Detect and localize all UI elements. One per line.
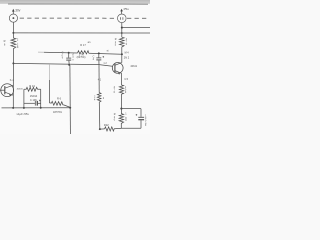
wire down — [98, 103, 101, 129]
transistor Q4 — [0, 84, 14, 97]
svg-text:40341: 40341 — [130, 65, 137, 68]
svg-text:R 6: R 6 — [57, 96, 62, 100]
node — [69, 107, 71, 109]
svg-text:18H 5%: 18H 5% — [53, 111, 63, 114]
wire right — [100, 128, 105, 130]
right column: wire T2 to rail E — [121, 23, 123, 38]
svg-text:b 4: b 4 — [10, 78, 15, 82]
node — [99, 128, 101, 130]
svg-text:2N 2: 2N 2 — [124, 55, 130, 59]
transistor Q5 — [112, 63, 123, 75]
R13 left leg — [23, 89, 25, 108]
node rail F — [120, 108, 122, 110]
vertical x=99 rail B to R19 — [98, 66, 100, 93]
label + right — [102, 56, 104, 58]
terminal T2 circle — [118, 14, 127, 23]
rail G — [121, 127, 141, 129]
wire emitter down — [121, 73, 123, 85]
terminal T1 +30V arrow — [12, 9, 15, 14]
long vertical from rail B down (x=70) — [69, 65, 71, 108]
capacitor C106 branch — [24, 100, 41, 106]
terminal T2 +9V arrow — [120, 9, 123, 14]
node cap A top — [68, 52, 70, 54]
resistor R20 — [119, 109, 123, 129]
node rail A cross — [121, 32, 123, 34]
svg-text:x1µF /65v: x1µF /65v — [17, 112, 30, 116]
node — [40, 107, 42, 109]
wire down to Q4 — [12, 63, 14, 108]
mid rail D left segment — [38, 51, 44, 53]
terminal T1 circle — [9, 14, 17, 22]
capacitor C4 — [96, 53, 101, 66]
resistor R13 — [24, 87, 41, 91]
rail E y=27.6 — [122, 27, 150, 29]
top scan band — [0, 0, 150, 4]
svg-text:R 13: R 13 — [29, 84, 35, 88]
R13 right leg — [40, 89, 42, 108]
svg-text:40305: 40305 — [17, 89, 24, 91]
node collector — [121, 53, 123, 55]
svg-text:R: R — [4, 39, 6, 43]
resistor R15 — [120, 37, 125, 62]
rail A y=33 — [13, 32, 150, 34]
node — [23, 107, 25, 109]
node cap B top — [98, 52, 100, 54]
svg-text:C 106: C 106 — [30, 99, 37, 102]
rail F — [121, 108, 141, 110]
wire to bottom edge — [69, 108, 71, 134]
svg-text:P5u: P5u — [124, 7, 130, 11]
resistor R19 — [97, 93, 101, 103]
rail B — [13, 63, 112, 66]
node at rail A — [12, 32, 14, 34]
node at rail B — [12, 62, 14, 64]
svg-text:30v: 30v — [15, 8, 21, 12]
svg-text:(0R 5%): (0R 5%) — [77, 56, 86, 59]
svg-text:R2Z: R2Z — [104, 124, 109, 127]
R16 leg from rail B — [48, 65, 50, 80]
capacitor C out — [136, 109, 145, 129]
svg-text:1N914: 1N914 — [30, 95, 38, 98]
svg-text:st: st — [107, 50, 109, 53]
rail C bottom-left — [2, 107, 71, 109]
svg-text:b.5: b.5 — [125, 78, 129, 81]
resistor R6 2.2K — [11, 33, 16, 63]
node rail E — [121, 27, 123, 29]
resistor R17 — [78, 51, 89, 54]
node rail B cap A — [68, 64, 70, 66]
mid rail D right segment — [89, 53, 122, 54]
capacitor C7 — [66, 53, 71, 65]
resistor R16 — [49, 101, 70, 107]
resistor Re — [119, 85, 123, 109]
resistor R21 bottom — [105, 127, 122, 131]
node — [12, 107, 14, 109]
svg-text:M 4: M 4 — [125, 52, 130, 55]
svg-text:R 17: R 17 — [80, 43, 86, 47]
wire T1 down — [12, 22, 14, 33]
dashed line — [20, 17, 118, 19]
